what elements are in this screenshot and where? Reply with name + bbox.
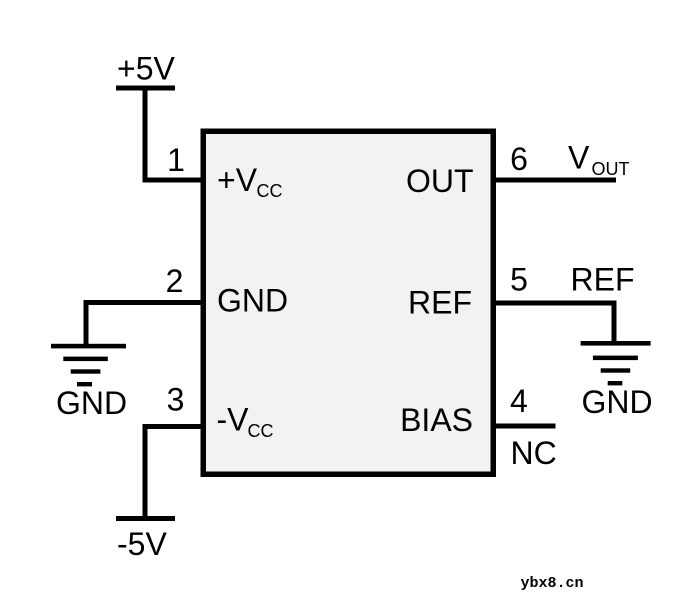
- svg-text:BIAS: BIAS: [400, 402, 473, 438]
- +5V supply label: [117, 51, 175, 87]
- svg-text:1: 1: [167, 142, 185, 178]
- pin 4 NC label: [511, 435, 557, 471]
- svg-text:REF: REF: [408, 285, 472, 321]
- pin 1 number: [167, 142, 185, 178]
- pin 5 number: [510, 262, 528, 298]
- wire pin 5 to ground (vertical): [612, 301, 617, 346]
- svg-text:4: 4: [510, 383, 528, 419]
- svg-text:+V: +V: [217, 162, 258, 198]
- watermark ybx8.cn: [521, 575, 584, 592]
- pin 4 label BIAS (inside IC): [400, 402, 473, 438]
- ground label GND left: [56, 385, 127, 421]
- pin 1 label +Vcc: [217, 162, 283, 201]
- svg-text:-V: -V: [217, 402, 250, 438]
- svg-text:OUT: OUT: [406, 163, 474, 199]
- svg-text:3: 3: [167, 382, 185, 418]
- svg-text:GND: GND: [56, 385, 127, 421]
- svg-text:OUT: OUT: [592, 159, 630, 179]
- wire pin 3 to -5V bar (vertical): [143, 424, 148, 521]
- wire pin 2 (horizontal): [84, 300, 204, 305]
- -5V supply label: [117, 526, 167, 562]
- IC U1 body: [203, 131, 493, 474]
- svg-text:REF: REF: [571, 262, 635, 298]
- wire pin 1 (horizontal): [143, 178, 204, 183]
- pin 6 number: [510, 141, 528, 177]
- svg-text:2: 2: [166, 263, 184, 299]
- pin 2 number: [166, 263, 184, 299]
- pin 5 label REF (inside IC): [408, 285, 472, 321]
- svg-text:GND: GND: [217, 283, 288, 319]
- net label REF: [571, 262, 635, 298]
- wire pin 4 (horizontal): [494, 424, 556, 429]
- wire +5V to pin 1 (vertical): [143, 86, 148, 183]
- svg-text:CC: CC: [248, 421, 274, 441]
- wire pin 3 (horizontal): [143, 424, 204, 429]
- pin 3 label -Vcc: [217, 402, 274, 442]
- pin 3 number: [167, 382, 185, 418]
- ground symbol right: [581, 341, 651, 385]
- ground label GND right: [581, 384, 652, 420]
- pin 4 number: [510, 383, 528, 419]
- wire pin 6 (horizontal): [494, 178, 617, 183]
- svg-text:GND: GND: [581, 384, 652, 420]
- svg-text:+5V: +5V: [117, 51, 175, 87]
- svg-text:ybx8.cn: ybx8.cn: [521, 575, 584, 592]
- +5V supply bar: [116, 86, 175, 91]
- svg-text:CC: CC: [257, 181, 283, 201]
- svg-text:6: 6: [510, 141, 528, 177]
- svg-text:-5V: -5V: [117, 526, 167, 562]
- ground symbol left: [51, 344, 126, 387]
- net label Vout: [568, 140, 630, 180]
- svg-text:NC: NC: [511, 435, 557, 471]
- svg-text:5: 5: [510, 262, 528, 298]
- pin 6 label OUT (inside IC): [406, 163, 474, 199]
- wire pin 5 (horizontal): [494, 301, 617, 306]
- wire pin 2 to ground (vertical): [84, 300, 89, 346]
- -5V supply bar: [116, 516, 175, 521]
- pin 2 label GND (inside IC): [217, 283, 288, 319]
- svg-text:V: V: [568, 140, 590, 176]
